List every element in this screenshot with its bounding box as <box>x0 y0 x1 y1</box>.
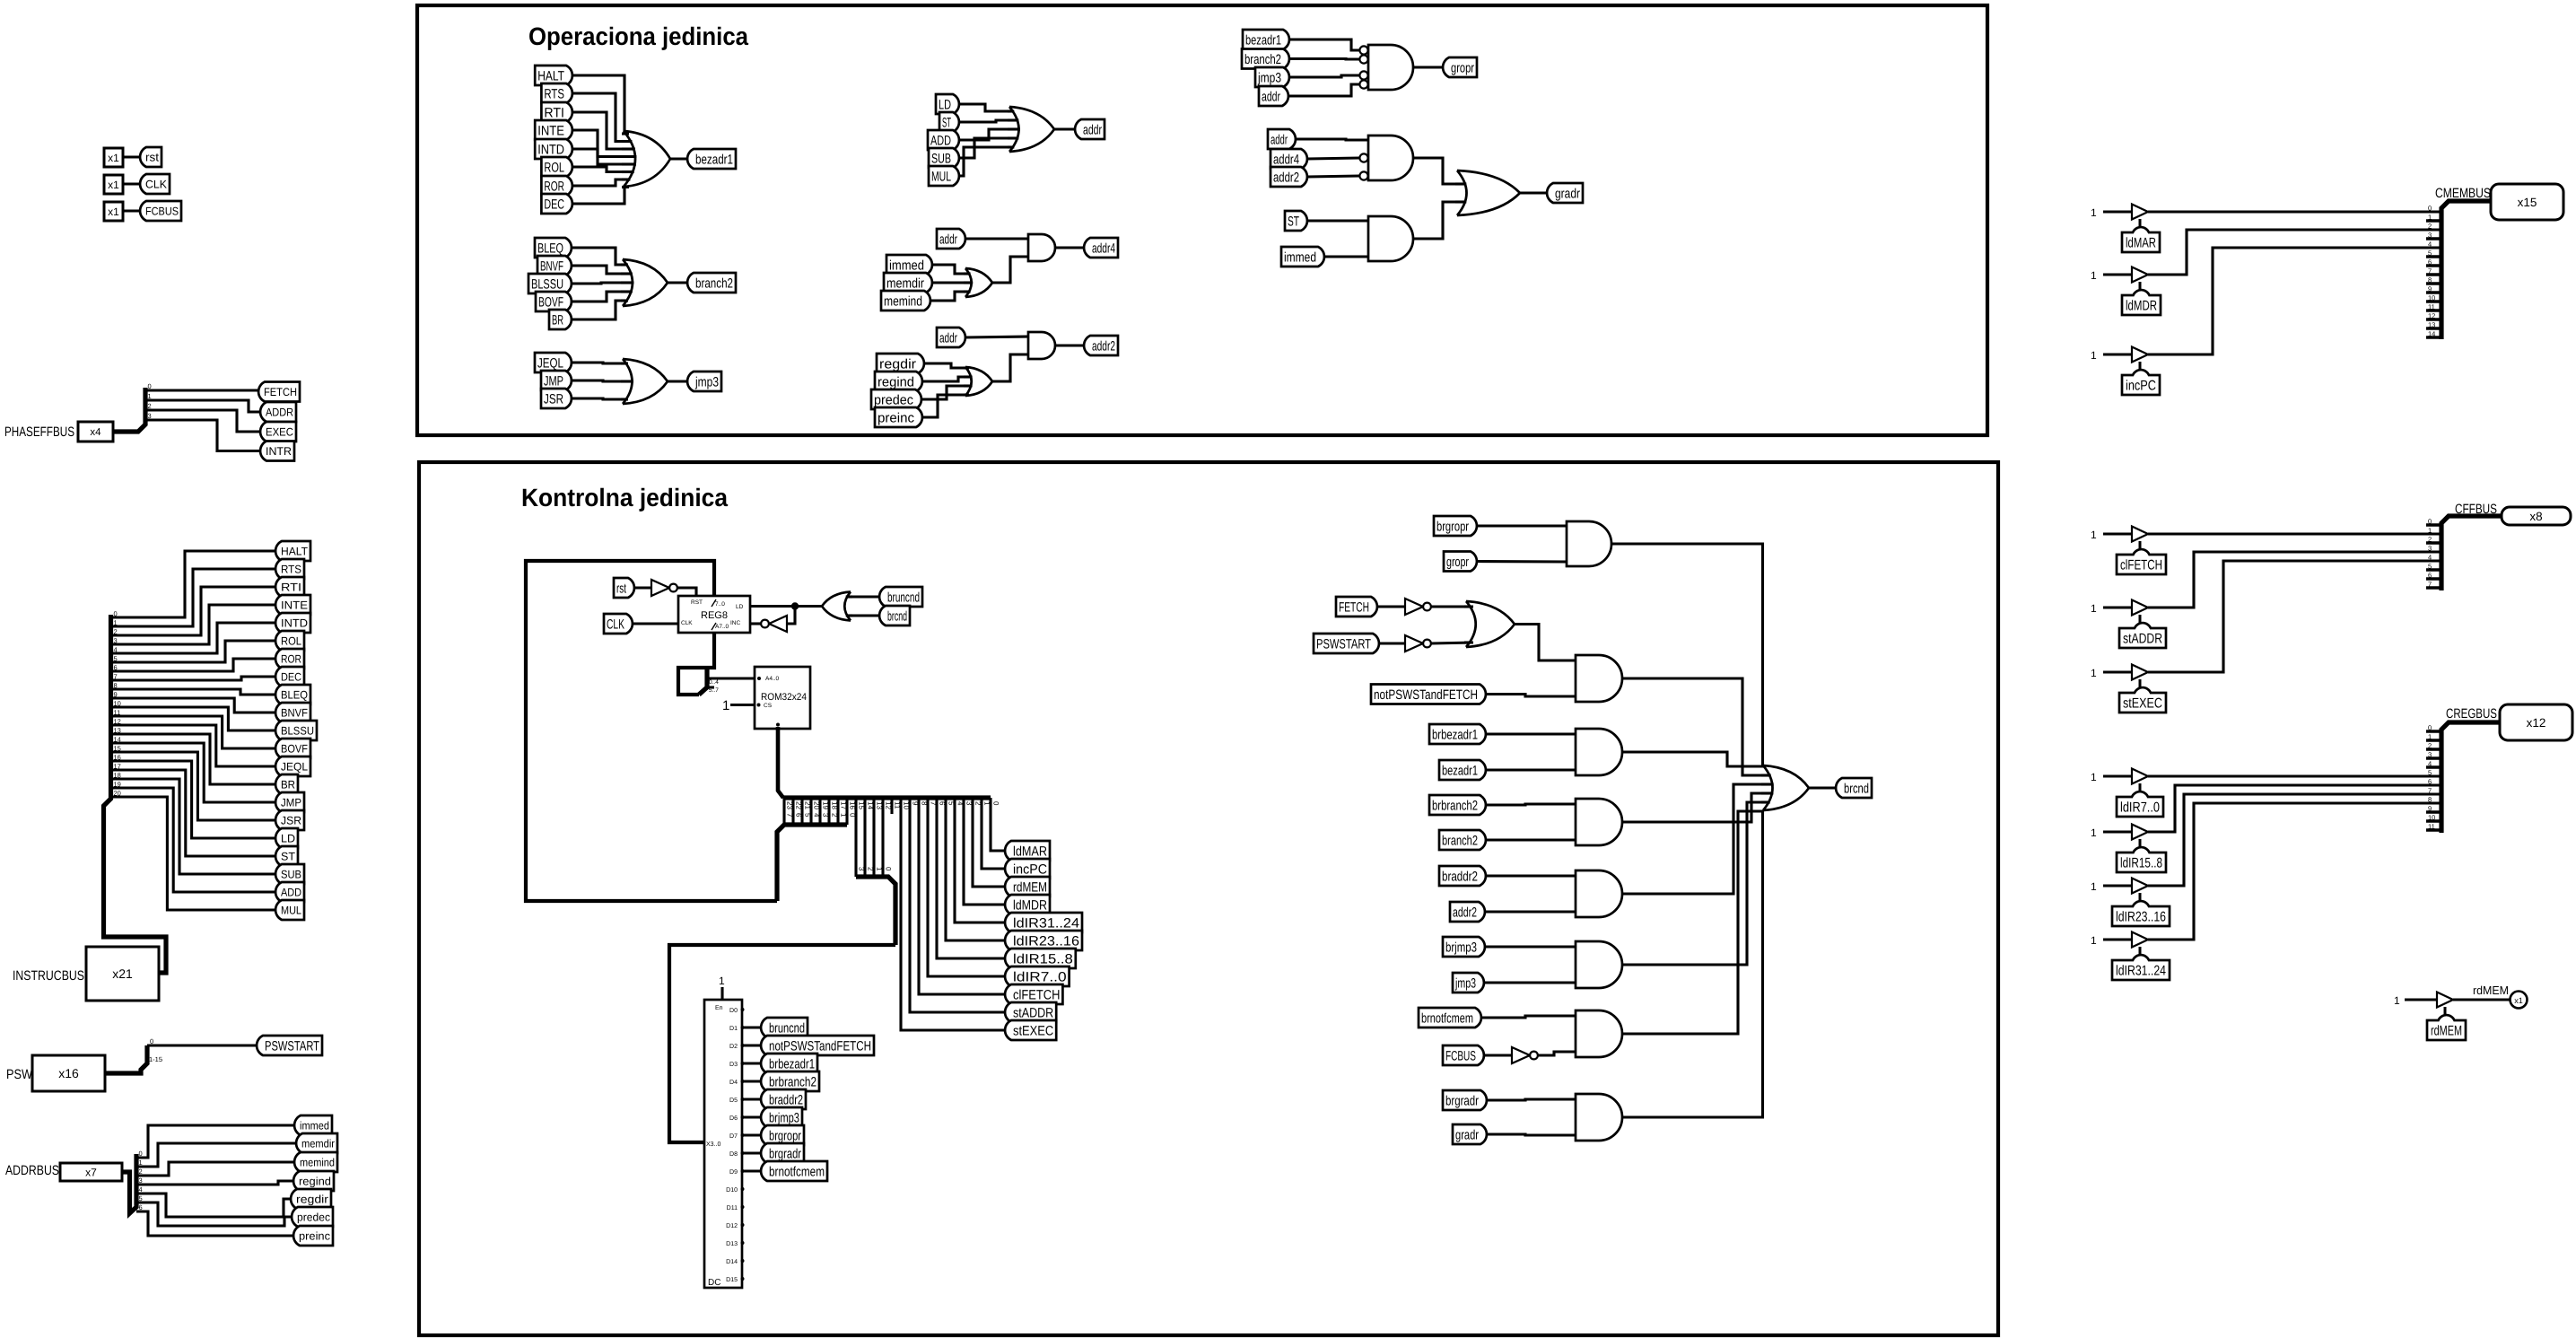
tunnel brgropr out <box>761 1125 804 1145</box>
svg-text:9: 9 <box>2428 805 2432 813</box>
wire D1 to bruncnd <box>743 1026 762 1028</box>
wire 1 to buffer <box>2103 353 2132 355</box>
svg-text:INTE: INTE <box>537 123 564 138</box>
svg-text:BNVF: BNVF <box>281 707 308 720</box>
or-gate (immed/memdir/memind) <box>965 268 992 297</box>
svg-text:immed: immed <box>300 1120 329 1132</box>
splitter 8-bit collector trunk <box>777 825 847 901</box>
wire ST to OR <box>959 120 1014 122</box>
tunnel brbezadr1 (in) <box>1429 724 1486 744</box>
svg-text:INTR: INTR <box>266 445 292 458</box>
wire splitter leg bit 11 stub <box>890 798 893 814</box>
wire bit 7 to ldIR7..0 <box>928 798 1005 976</box>
wire buffer control <box>2139 783 2142 791</box>
tunnel jmp3 (in gropr) <box>1255 67 1289 87</box>
svg-text:6: 6 <box>114 664 118 672</box>
svg-text:11: 11 <box>114 709 121 717</box>
svg-text:brcnd: brcnd <box>1844 781 1869 796</box>
wire AND out to gropr <box>1413 66 1443 68</box>
svg-text:ldMAR: ldMAR <box>1013 844 1047 859</box>
tunnel rst <box>140 147 162 167</box>
svg-text:x4: x4 <box>90 427 101 438</box>
tunnel addr (in gropr) <box>1259 86 1288 106</box>
wire brcnd to OR <box>851 614 879 617</box>
svg-text:SUB: SUB <box>281 869 301 881</box>
wire addr to AND <box>1288 84 1359 96</box>
wire buffer control <box>2139 219 2142 227</box>
wire 1 to buffer <box>2103 606 2132 608</box>
wire AND out to OR brcnd <box>1622 802 1762 965</box>
tunnel stADDR out <box>1005 1002 1056 1022</box>
tunnel ST (in gradr) <box>1285 211 1307 231</box>
svg-text:brnotfcmem: brnotfcmem <box>769 1164 825 1179</box>
svg-text:2: 2 <box>831 813 839 818</box>
not-gate (FCBUS) <box>1512 1047 1530 1063</box>
splitter CMEMBUS leg 7 <box>2426 273 2441 276</box>
svg-text:INTE: INTE <box>281 599 308 612</box>
wire brnotfcmem to AND <box>1481 1016 1576 1018</box>
svg-text:0: 0 <box>992 801 1000 806</box>
tunnel gradr (in) <box>1453 1124 1487 1144</box>
wire OR to AND <box>1515 625 1576 661</box>
tunnel branch2 (in) <box>1439 830 1486 850</box>
tunnel regind (in) <box>875 372 922 391</box>
svg-text:1: 1 <box>840 813 848 818</box>
svg-text:BOVF: BOVF <box>538 294 563 310</box>
wire bit 13 to BR <box>111 734 276 784</box>
svg-text:2: 2 <box>114 628 118 636</box>
wire INTE to OR <box>572 130 629 157</box>
svg-text:CLK: CLK <box>681 620 693 626</box>
wire braddr2 to AND <box>1486 874 1576 877</box>
splitter CREGBUS leg 11 <box>2426 828 2441 832</box>
svg-text:INTD: INTD <box>537 142 564 157</box>
and-gate (bruncnd term) <box>1576 655 1622 702</box>
svg-text:12: 12 <box>2428 312 2435 320</box>
tunnel bezadr1 (in) <box>1439 760 1486 780</box>
tunnel BLSSU (op) <box>528 274 572 293</box>
wire branch2 to AND <box>1486 838 1576 841</box>
svg-text:2: 2 <box>2428 742 2432 750</box>
wire buffer control <box>2139 541 2142 549</box>
tunnel brbezadr1 out <box>761 1054 817 1073</box>
svg-text:bezadr1: bezadr1 <box>1442 763 1478 778</box>
wire gradr to AND <box>1487 1134 1576 1135</box>
splitter 24-bit trunk <box>783 795 991 800</box>
tunnel ldMAR out <box>1005 841 1050 861</box>
and-gate (brbezadr1 & bezadr1) <box>1576 729 1622 775</box>
svg-text:addr: addr <box>1083 122 1102 137</box>
wire addr4 to AND <box>1307 158 1359 159</box>
wire NOT to OR <box>1431 605 1473 608</box>
wire notPSWSTandFETCH to AND <box>1486 695 1576 697</box>
tunnel stEXEC out <box>1005 1020 1056 1040</box>
svg-text:INC: INC <box>730 620 741 626</box>
wire immed to AND <box>1324 255 1368 258</box>
svg-text:7: 7 <box>786 813 794 818</box>
input pin x7 ADDRBUS <box>60 1163 122 1181</box>
tunnel ldIR7..0 (ctl) <box>2117 791 2163 817</box>
wire ADDRBUS splitter trunk <box>122 1154 136 1213</box>
svg-text:1: 1 <box>719 975 725 987</box>
splitter select leg labels <box>858 867 893 871</box>
wire bit 14 to JMP <box>111 743 276 802</box>
wire junction to NOT <box>787 607 795 625</box>
svg-text:addr2: addr2 <box>1273 170 1299 185</box>
wire <box>122 209 140 212</box>
wire buffer to CFFBUS bit3 <box>2148 552 2441 608</box>
svg-text:Operaciona jedinica: Operaciona jedinica <box>528 22 748 50</box>
svg-text:A7..0: A7..0 <box>715 624 729 630</box>
svg-text:4: 4 <box>2428 760 2432 768</box>
wire bit4 to regdir <box>136 1194 291 1217</box>
wire jmp3 to AND <box>1484 981 1576 984</box>
wire REG8 A7..0 to splitter <box>678 633 714 695</box>
splitter CFFBUS leg 6 <box>2426 577 2441 581</box>
svg-text:0..4: 0..4 <box>709 679 719 686</box>
wire bit 4 to INTD <box>111 623 276 653</box>
tunnel INTE (op) <box>535 120 572 140</box>
svg-text:1: 1 <box>2091 529 2097 541</box>
svg-text:ADDR: ADDR <box>266 407 293 419</box>
wire ROR to OR <box>572 179 629 186</box>
tunnel predec (ADDRBUS) <box>292 1207 333 1227</box>
svg-text:memind: memind <box>884 293 922 309</box>
wire splitter leg bit 18 <box>827 798 830 825</box>
buffer stEXEC <box>2132 665 2148 680</box>
svg-text:braddr2: braddr2 <box>769 1092 803 1107</box>
svg-text:10: 10 <box>2428 294 2435 302</box>
wire AND out to addr2 <box>1055 344 1084 346</box>
tunnel JSR <box>275 810 304 830</box>
and-gate addr2 <box>1028 332 1055 359</box>
svg-text:ROR: ROR <box>281 653 301 666</box>
svg-text:0: 0 <box>2428 518 2432 526</box>
tunnel FETCH (in) <box>1336 597 1377 617</box>
tunnel JSR (op) <box>541 389 572 408</box>
wire bit 5 to ldIR23..16 <box>946 798 1005 940</box>
wire splitter leg bit 23 <box>782 798 785 825</box>
svg-text:14: 14 <box>114 736 121 744</box>
svg-text:stEXEC: stEXEC <box>1013 1023 1053 1038</box>
splitter INSTRUCBUS leg labels <box>114 610 121 798</box>
wire immed to OR <box>932 265 969 274</box>
tunnel brbranch2 (in) <box>1429 795 1486 815</box>
svg-text:bezadr1: bezadr1 <box>695 152 733 167</box>
tunnel notPSWSTandFETCH (in) <box>1371 685 1486 704</box>
svg-text:3: 3 <box>858 867 866 871</box>
svg-text:DEC: DEC <box>544 197 564 212</box>
wire bits 0..4 to ROM A4..0 <box>707 677 755 679</box>
tunnel PSWSTART (in) <box>1314 634 1379 653</box>
and-gate gropr (neg inputs) <box>1368 45 1413 90</box>
wire MUL to OR <box>959 147 1014 176</box>
wire D4 to brbranch2 <box>743 1080 762 1082</box>
buffer ldMDR <box>2132 267 2148 283</box>
wire brbranch2 to AND <box>1486 804 1576 805</box>
svg-text:ST: ST <box>942 115 951 130</box>
svg-text:18: 18 <box>114 772 121 780</box>
tunnel MUL (op) <box>929 166 959 186</box>
svg-text:rdMEM: rdMEM <box>2431 1024 2462 1039</box>
tunnel BNVF (op) <box>537 256 572 275</box>
svg-text:BLEQ: BLEQ <box>537 240 563 256</box>
tunnel rdMEM (ctl) <box>2427 1015 2466 1040</box>
wire bit 18 to SUB <box>111 779 276 874</box>
wire to ADDR <box>145 400 260 412</box>
tunnel BLEQ (op) <box>535 238 572 258</box>
svg-text:A4..0: A4..0 <box>765 676 780 682</box>
wire 1 to buffer <box>2103 774 2132 777</box>
wire to INTR <box>145 420 260 451</box>
wire ROM D out bus <box>778 727 783 798</box>
svg-text:ldIR7..0: ldIR7..0 <box>1013 969 1067 984</box>
tunnel bruncnd (in) <box>879 587 922 607</box>
output pin x12 CREGBUS <box>2500 704 2572 740</box>
svg-text:x1: x1 <box>108 206 119 218</box>
tunnel PSWSTART <box>257 1036 322 1055</box>
svg-text:bruncnd: bruncnd <box>769 1020 805 1036</box>
svg-text:preinc: preinc <box>299 1230 330 1243</box>
splitter CMEMBUS leg 13 <box>2426 327 2441 330</box>
svg-text:DC: DC <box>708 1278 720 1288</box>
wire NOT to REG8 INC <box>750 622 761 625</box>
wire memind to OR <box>930 292 969 301</box>
and-gate (brnotfcmem & not FCBUS) <box>1576 1010 1622 1057</box>
svg-text:0: 0 <box>114 610 118 618</box>
wire 1 to buffer <box>2103 532 2132 535</box>
svg-text:bruncnd: bruncnd <box>887 590 920 605</box>
tunnel stADDR (ctl) <box>2119 623 2166 648</box>
svg-text:stADDR: stADDR <box>2123 632 2162 647</box>
wire bit2 to memind <box>136 1162 294 1176</box>
wire 1 to En <box>720 987 723 1000</box>
svg-text:D12: D12 <box>726 1223 738 1229</box>
box Operaciona jedinica <box>417 5 1987 435</box>
or-gate bezadr1 <box>624 131 670 187</box>
svg-text:BNVF: BNVF <box>540 258 563 274</box>
svg-text:incPC: incPC <box>2126 379 2156 394</box>
splitter CFFBUS leg labels <box>2428 518 2432 589</box>
tunnel INTR <box>260 442 294 461</box>
svg-text:ldIR15..8: ldIR15..8 <box>1013 951 1073 966</box>
wire buffer control <box>2139 839 2142 847</box>
svg-text:LD: LD <box>281 833 295 845</box>
splitter sub 8-bit leg labels <box>786 813 857 818</box>
svg-text:11: 11 <box>2428 303 2435 311</box>
svg-text:20: 20 <box>114 790 121 798</box>
svg-text:1: 1 <box>2091 269 2097 282</box>
svg-text:branch2: branch2 <box>695 275 733 291</box>
splitter CREGBUS leg 10 <box>2426 819 2441 823</box>
svg-text:RTI: RTI <box>544 105 564 120</box>
svg-text:regdir: regdir <box>296 1194 328 1206</box>
tunnel INTD <box>275 613 310 633</box>
svg-text:D11: D11 <box>727 1205 738 1211</box>
svg-text:ROL: ROL <box>544 160 564 175</box>
splitter CMEMBUS leg 1 <box>2426 219 2441 223</box>
tunnel brnotfcmem out <box>761 1161 827 1181</box>
svg-text:LD: LD <box>939 97 951 112</box>
tunnel addr4 (in gradr) <box>1271 149 1307 169</box>
wire buffer control <box>2139 947 2142 955</box>
svg-text:memdir: memdir <box>886 275 924 291</box>
svg-text:ldIR23..16: ldIR23..16 <box>1013 933 1079 949</box>
wire bit 8 to BLEQ <box>111 689 276 695</box>
wire splitter leg bit 20 <box>809 798 812 825</box>
svg-text:1: 1 <box>2091 934 2097 947</box>
svg-text:rdMEM: rdMEM <box>1013 879 1047 895</box>
svg-text:5: 5 <box>2428 563 2432 571</box>
tunnel BR <box>275 774 298 794</box>
svg-text:1: 1 <box>2428 733 2432 741</box>
svg-text:D9: D9 <box>729 1169 738 1176</box>
svg-text:1: 1 <box>876 867 884 871</box>
tunnel bezadr1 out <box>687 149 736 169</box>
or-gate addr <box>1009 107 1054 152</box>
wire splitter leg bit 16 <box>845 798 848 825</box>
svg-text:1: 1 <box>2091 602 2097 615</box>
splitter CREGBUS leg 4 <box>2426 765 2441 769</box>
svg-text:ADDRBUS: ADDRBUS <box>5 1163 59 1178</box>
svg-text:BLSSU: BLSSU <box>281 725 314 738</box>
tunnel RTS (op) <box>541 83 572 103</box>
wire bit 1 to incPC <box>982 798 1005 869</box>
splitter PHASEFFBUS leg labels <box>148 382 152 420</box>
wire OR out to branch2 <box>668 281 687 284</box>
svg-text:0: 0 <box>2428 724 2432 732</box>
tunnel ST (op) <box>939 112 959 132</box>
tunnel INTD (op) <box>535 139 572 159</box>
wire D8 to brgradr <box>743 1151 762 1154</box>
tunnel addr out <box>1075 119 1105 139</box>
wire brbezadr1 to AND <box>1486 732 1576 735</box>
wire bit 16 to LD <box>111 761 276 838</box>
tunnel BOVF <box>275 739 310 758</box>
tunnel rdMEM out <box>1005 877 1050 896</box>
or-gate brcnd (8 input) <box>1763 765 1809 810</box>
input pin x16 PSW <box>32 1055 105 1091</box>
tunnel RTI (op) <box>541 102 572 122</box>
tunnel branch2 out <box>687 273 736 293</box>
tunnel LD <box>275 828 298 848</box>
wire splitter leg bit 17 <box>836 798 839 825</box>
tunnel addr (in addr4) <box>937 229 965 249</box>
wire bit 12 to JEQL <box>111 725 276 766</box>
svg-text:x8: x8 <box>2529 510 2542 523</box>
tunnel addr2 (in gradr) <box>1271 167 1307 187</box>
wire bit 2 to RTI <box>111 587 276 635</box>
svg-text:preinc: preinc <box>878 410 914 425</box>
svg-text:6: 6 <box>2428 572 2432 580</box>
wire bit 0 to HALT <box>111 551 276 617</box>
svg-text:INTD: INTD <box>281 617 308 630</box>
decoder DC (4-to-16) <box>704 1000 742 1288</box>
tunnel addr4 out <box>1084 238 1118 258</box>
wire FETCH to NOT <box>1377 605 1405 608</box>
tunnel brbranch2 out <box>761 1071 819 1091</box>
wire bit1 to memdir <box>136 1143 296 1167</box>
wire AND out to OR brcnd <box>1622 811 1763 1034</box>
wire bruncnd to OR <box>851 595 879 598</box>
svg-text:9: 9 <box>114 691 118 699</box>
svg-text:8: 8 <box>114 682 118 690</box>
splitter CMEMBUS leg 8 <box>2426 282 2441 285</box>
svg-text:1: 1 <box>2091 880 2097 893</box>
splitter CMEMBUS leg 5 <box>2426 255 2441 258</box>
wire addr2 to AND <box>1307 176 1359 177</box>
svg-text:ldIR23..16: ldIR23..16 <box>2116 910 2166 925</box>
wire D2 to notPSWSTandFETCH <box>743 1044 762 1046</box>
wire AND out to OR brcnd <box>1622 793 1762 822</box>
splitter CREGBUS leg 1 <box>2426 739 2441 742</box>
svg-text:regind: regind <box>878 374 914 389</box>
tunnel immed (in) <box>886 255 932 275</box>
tunnel immed (ADDRBUS) <box>294 1115 332 1135</box>
wire bit 6 to ROR <box>111 659 276 671</box>
tunnel ldIR23..16 (ctl) <box>2112 901 2170 926</box>
wire OR out to bezadr1 <box>670 157 687 160</box>
tunnel ldIR23..16 out <box>1005 931 1082 950</box>
wire JMP to OR <box>572 380 628 381</box>
splitter A7..0 leg labels <box>709 679 719 694</box>
wire CLK to REG8 <box>633 622 678 625</box>
svg-text:JSR: JSR <box>281 815 301 827</box>
svg-text:ST: ST <box>281 851 295 863</box>
tunnel memind (in) <box>881 291 930 310</box>
tunnel incPC out <box>1005 859 1050 879</box>
wire memdir to OR <box>932 281 969 284</box>
output pin x8 CFFBUS <box>2502 507 2571 525</box>
wire SUB to OR <box>959 138 1014 158</box>
splitter CMEMBUS leg labels <box>2428 205 2435 338</box>
splitter CREGBUS leg 9 <box>2426 810 2441 814</box>
svg-text:BOVF: BOVF <box>281 743 308 756</box>
tunnel brjmp3 (in) <box>1443 937 1485 957</box>
wire <box>122 182 140 185</box>
wire splitter stub <box>707 686 714 688</box>
wire bit0 to immed <box>136 1125 294 1158</box>
svg-text:1: 1 <box>2091 349 2097 362</box>
svg-text:rst: rst <box>145 151 159 164</box>
wire regdir to OR <box>924 363 969 368</box>
svg-text:rst: rst <box>616 581 627 596</box>
svg-text:regind: regind <box>299 1176 331 1188</box>
wire bit 2 to rdMEM <box>973 798 1005 887</box>
svg-text:4: 4 <box>114 646 118 654</box>
tunnel RTS <box>275 559 304 579</box>
tunnel CLK (in) <box>604 614 633 634</box>
splitter CREGBUS trunk <box>2441 722 2500 833</box>
wire <box>122 155 140 158</box>
svg-text:D8: D8 <box>729 1151 738 1158</box>
tunnel ROR <box>275 649 304 669</box>
wire PSWSTART to NOT <box>1379 642 1405 644</box>
wire addr to AND <box>965 237 1028 240</box>
wire PSW splitter trunk <box>105 1045 147 1073</box>
svg-text:3: 3 <box>822 813 830 818</box>
tunnel ldIR7..0 out <box>1005 966 1070 986</box>
svg-text:brgropr: brgropr <box>769 1128 801 1143</box>
svg-text:MUL: MUL <box>931 169 951 184</box>
svg-text:D6: D6 <box>729 1115 738 1122</box>
svg-text:ldMDR: ldMDR <box>1013 897 1047 913</box>
svg-text:REG8: REG8 <box>701 610 728 621</box>
splitter A7..0 trunk <box>699 669 707 695</box>
splitter CFFBUS trunk <box>2441 516 2502 590</box>
tunnel regdir (in) <box>877 354 924 373</box>
tunnel INTE <box>275 595 310 615</box>
